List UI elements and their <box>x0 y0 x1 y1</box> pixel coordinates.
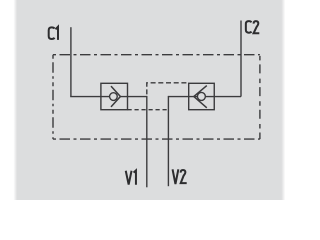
wire V2 vertical <box>167 96 169 186</box>
wire valve V2a to C2 <box>206 96 241 98</box>
check valve V1a box <box>101 83 128 109</box>
wire valve V1a to node V1 <box>120 96 147 98</box>
label V1 <box>126 171 132 185</box>
label C1 <box>49 27 55 39</box>
check valve V1a ball <box>110 93 118 101</box>
dash-dot valve enclosure boundary top edge <box>53 54 260 56</box>
label V2 <box>173 169 179 184</box>
label C2 <box>246 21 252 33</box>
dash-dot valve enclosure boundary left edge <box>52 55 54 139</box>
check valve V2a ball <box>197 92 205 100</box>
dash-dot valve enclosure boundary right edge <box>259 55 261 139</box>
pilot line dashed from node V1 to valve V2a <box>147 83 189 97</box>
grey photo band background <box>0 0 300 200</box>
dash-dot valve enclosure boundary bottom edge <box>53 138 260 140</box>
wire C2 vertical <box>240 21 242 97</box>
wire C1 horizontal to valve V1a <box>70 96 109 98</box>
wire V2 horizontal to valve V2a <box>168 96 197 98</box>
wire V1 vertical <box>146 96 148 187</box>
check valve V2a box <box>189 83 215 109</box>
pilot line dashed from node V2 to valve V1a <box>128 109 169 111</box>
check valve V2a seat <box>194 86 207 108</box>
check valve V1a seat <box>111 86 120 107</box>
wire C1 vertical <box>70 27 72 96</box>
